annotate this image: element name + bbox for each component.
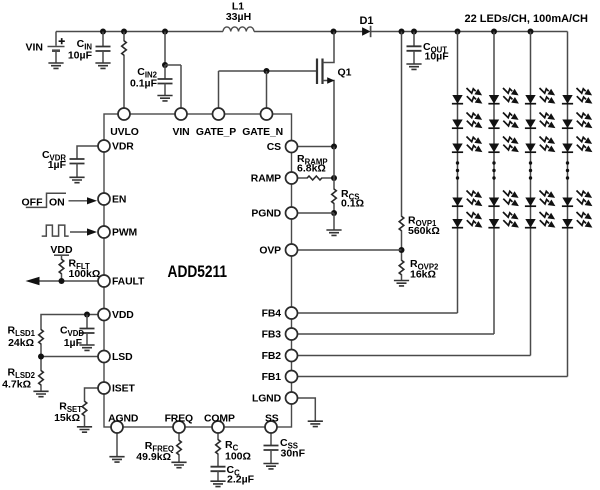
svg-text:2.2µF: 2.2µF [227, 474, 255, 486]
svg-text:VDD: VDD [112, 310, 134, 321]
svg-text:ON: ON [49, 197, 65, 209]
svg-text:24kΩ: 24kΩ [8, 337, 34, 349]
svg-text:GATE_N: GATE_N [242, 127, 283, 138]
svg-text:Q1: Q1 [338, 67, 352, 79]
svg-text:0.1µF: 0.1µF [130, 78, 158, 90]
svg-text:AGND: AGND [108, 413, 139, 424]
svg-text:30nF: 30nF [281, 448, 306, 460]
svg-text:FB4: FB4 [262, 309, 282, 320]
svg-text:VIN: VIN [172, 127, 189, 138]
svg-text:ADD5211: ADD5211 [168, 262, 228, 281]
svg-text:OVP: OVP [259, 246, 281, 257]
svg-text:GATE_P: GATE_P [196, 127, 236, 138]
svg-text:6.8kΩ: 6.8kΩ [297, 163, 326, 175]
svg-text:15kΩ: 15kΩ [54, 412, 80, 424]
svg-text:VIN: VIN [25, 42, 43, 54]
svg-text:LSD: LSD [112, 352, 133, 363]
svg-text:1µF: 1µF [64, 337, 83, 349]
svg-text:33µH: 33µH [226, 11, 251, 23]
svg-text:COMP: COMP [204, 413, 235, 424]
svg-text:EN: EN [112, 195, 126, 206]
svg-text:ISET: ISET [112, 384, 135, 395]
svg-text:16kΩ: 16kΩ [410, 269, 436, 281]
svg-text:560kΩ: 560kΩ [408, 225, 440, 237]
svg-text:UVLO: UVLO [110, 127, 138, 138]
svg-text:SS: SS [265, 413, 279, 424]
svg-text:D1: D1 [359, 15, 373, 27]
svg-text:LGND: LGND [252, 394, 282, 405]
svg-text:FB3: FB3 [262, 330, 282, 341]
svg-text:10µF: 10µF [68, 50, 93, 62]
svg-text:VDR: VDR [112, 142, 134, 153]
svg-text:10µF: 10µF [425, 51, 450, 63]
svg-text:FREQ: FREQ [165, 413, 193, 424]
svg-text:VDD: VDD [50, 244, 73, 256]
svg-text:22 LEDs/CH, 100mA/CH: 22 LEDs/CH, 100mA/CH [465, 13, 589, 25]
svg-text:0.1Ω: 0.1Ω [341, 198, 364, 210]
svg-text:PWM: PWM [112, 228, 137, 239]
svg-text:100kΩ: 100kΩ [69, 268, 101, 280]
svg-text:FAULT: FAULT [112, 277, 145, 288]
svg-text:1µF: 1µF [48, 159, 67, 171]
svg-text:RAMP: RAMP [251, 174, 281, 185]
svg-text:FB1: FB1 [262, 372, 282, 383]
svg-text:100Ω: 100Ω [225, 451, 251, 463]
svg-text:PGND: PGND [251, 209, 281, 220]
svg-text:4.7kΩ: 4.7kΩ [2, 379, 31, 391]
svg-text:CS: CS [267, 142, 281, 153]
svg-text:FB2: FB2 [262, 351, 282, 362]
svg-text:49.9kΩ: 49.9kΩ [136, 451, 171, 463]
